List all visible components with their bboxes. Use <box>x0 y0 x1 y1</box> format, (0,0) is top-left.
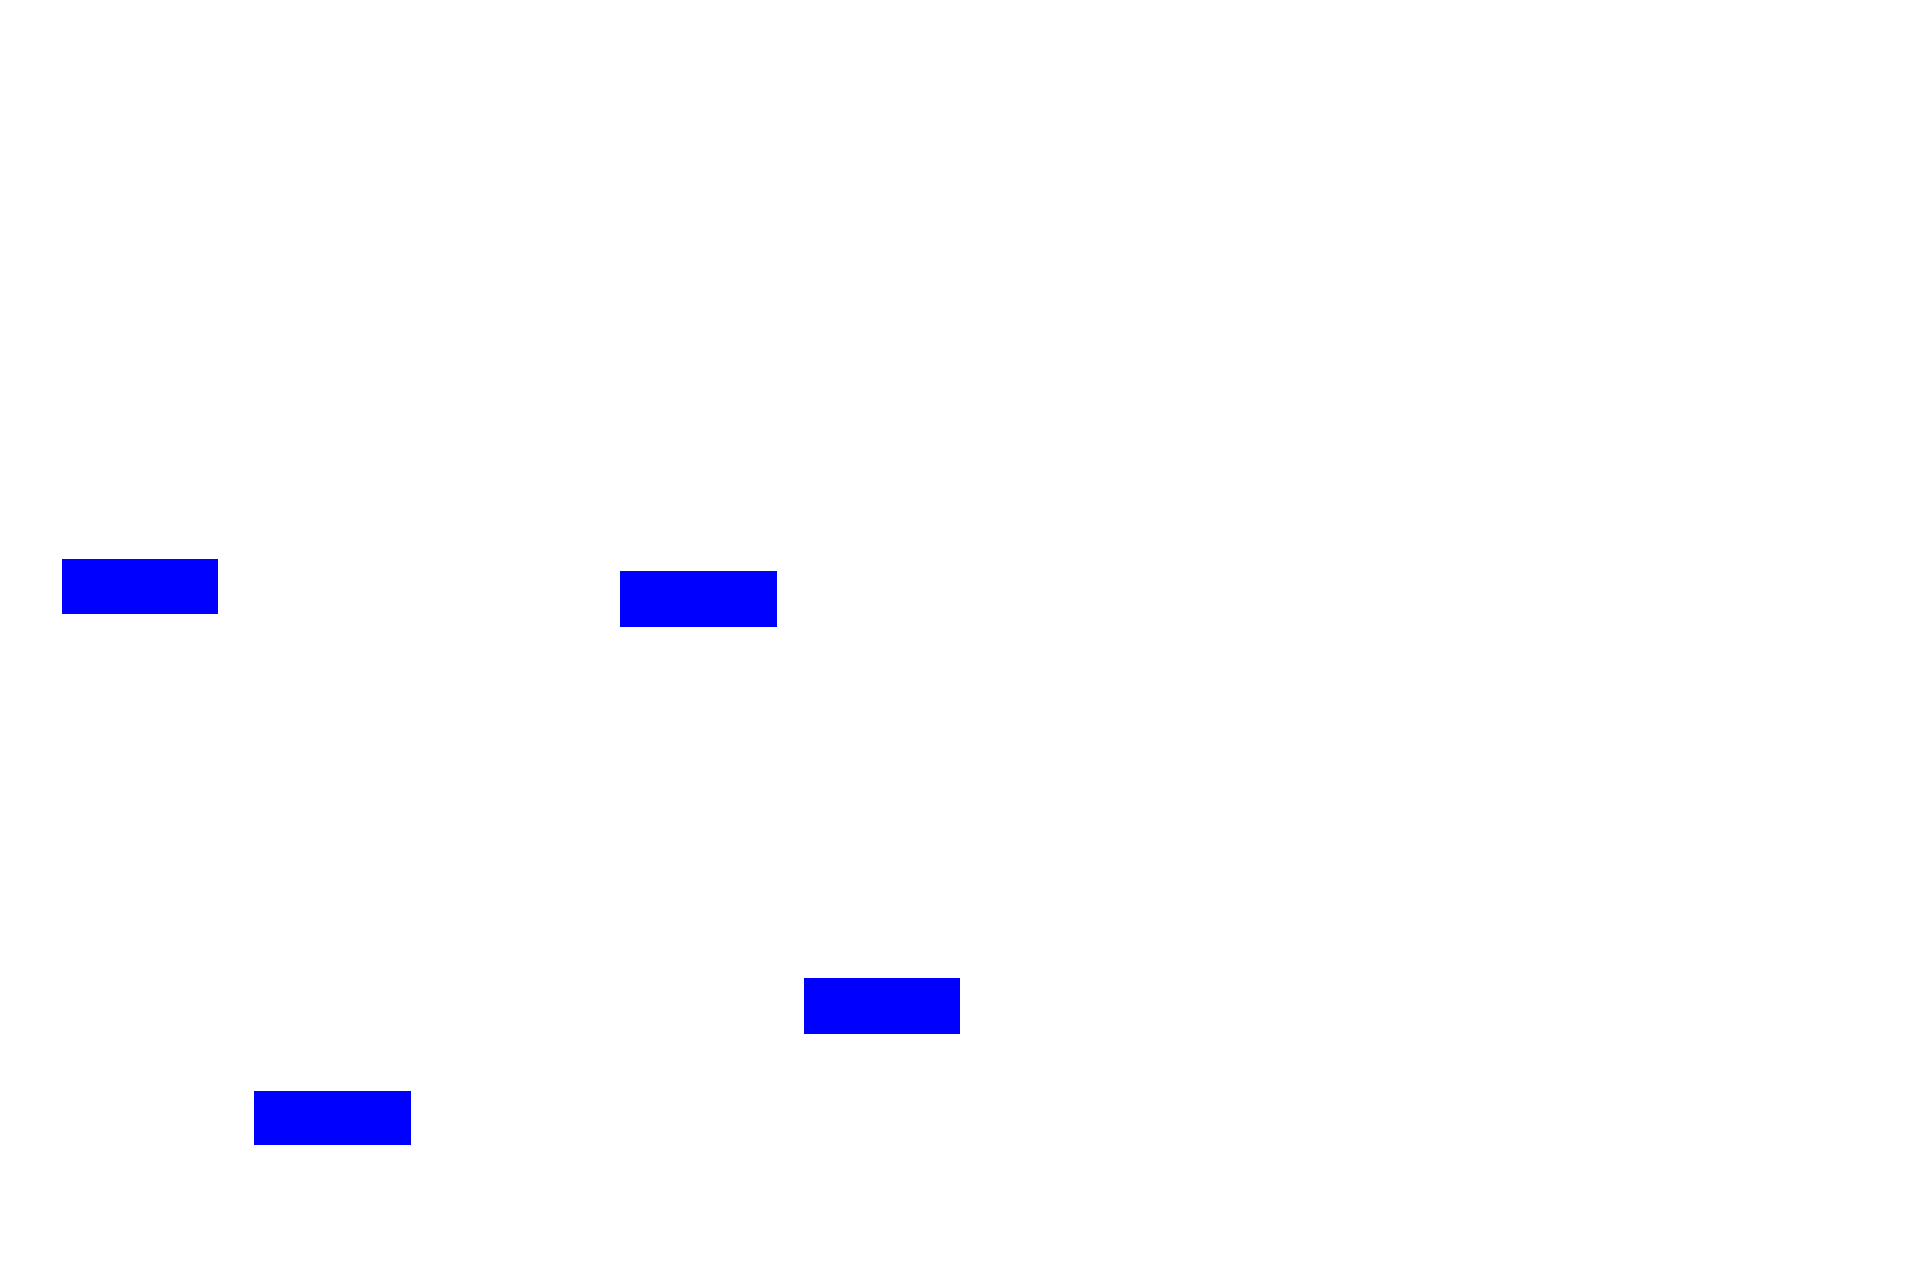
blue rectangle 3 (lower middle-right) <box>804 978 960 1034</box>
blue rectangle 2 (upper middle) <box>620 571 777 627</box>
blue rectangle 4 (lower left) <box>254 1091 411 1145</box>
blue rectangle 1 (upper left) <box>62 559 218 614</box>
